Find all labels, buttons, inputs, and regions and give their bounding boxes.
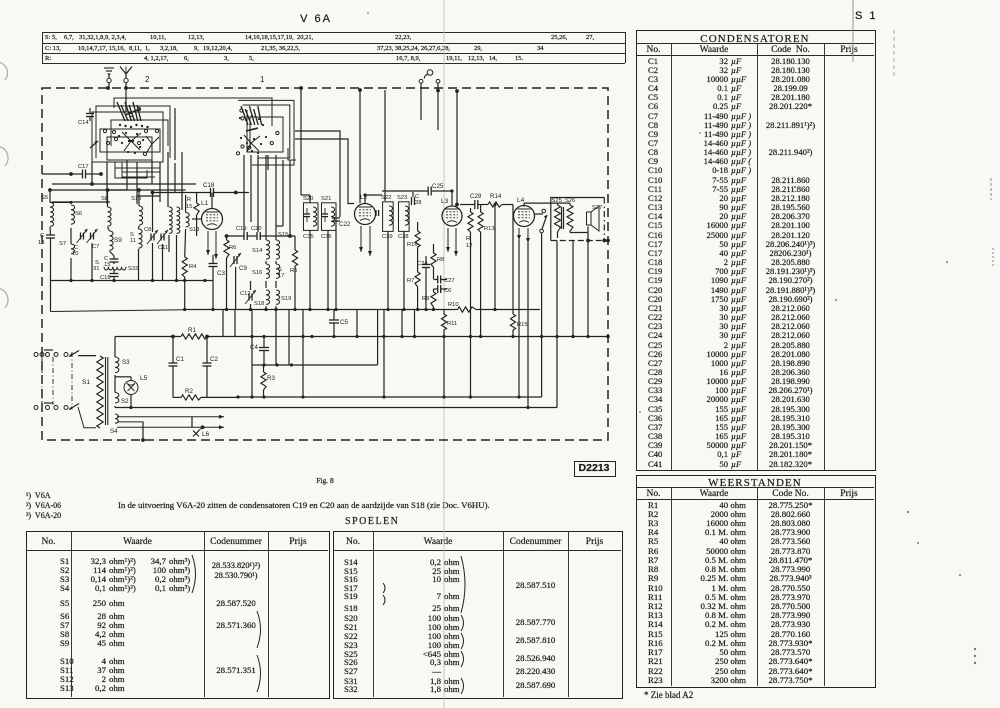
svg-text:S18: S18 xyxy=(254,301,264,307)
node j39 xyxy=(517,395,520,398)
node busA 6 xyxy=(183,279,186,282)
wire T to S20 xyxy=(295,131,340,217)
node j9 xyxy=(334,308,337,311)
coil S12b xyxy=(177,207,180,233)
node j34 xyxy=(262,395,265,398)
mains dash-dot c xyxy=(71,352,73,405)
heater lead arrow a xyxy=(117,416,224,418)
svg-text:C5: C5 xyxy=(340,319,348,326)
coil S17 xyxy=(276,264,280,278)
wire coil top link xyxy=(50,201,71,203)
svg-text:S27: S27 xyxy=(592,205,602,211)
node j4 xyxy=(264,308,267,311)
wire top border drop x360 xyxy=(359,90,361,203)
mains dash-dot a xyxy=(41,357,43,405)
node busA 1 xyxy=(69,279,72,282)
resistor R2 xyxy=(181,395,201,400)
svg-text:C: C xyxy=(40,233,44,239)
node bus-border xyxy=(606,335,610,339)
transformer secondary S3 xyxy=(115,357,119,373)
specks xyxy=(794,186,796,188)
wire C8 column xyxy=(152,193,154,232)
svg-text:12: 12 xyxy=(466,243,472,249)
mains link bar lower xyxy=(44,402,53,404)
svg-text:R6: R6 xyxy=(229,245,236,251)
node j40 xyxy=(236,395,239,398)
node j29 xyxy=(540,335,543,338)
svg-text:C22: C22 xyxy=(339,221,351,228)
coil S6 xyxy=(71,205,75,224)
svg-text:11: 11 xyxy=(130,238,136,244)
svg-text:L5: L5 xyxy=(140,375,148,382)
chassis border (dashed) xyxy=(42,88,608,440)
svg-text:R11: R11 xyxy=(447,321,457,327)
svg-text:R9: R9 xyxy=(422,296,429,302)
node speaker bottom xyxy=(586,239,590,243)
wire maze b xyxy=(137,195,160,197)
resistor R5 xyxy=(292,250,297,266)
coil S14 xyxy=(266,240,270,259)
node j41 xyxy=(129,406,132,409)
wire L4 grid xyxy=(512,205,514,213)
wire top border drop x457 xyxy=(456,91,458,205)
node j21 xyxy=(355,335,358,338)
brace S6-S9 xyxy=(257,611,261,648)
crease segment right xyxy=(893,30,895,76)
wire drop x258 xyxy=(257,155,259,232)
brace S25-S26 xyxy=(461,651,464,667)
wire drop x223 xyxy=(222,310,224,337)
trimmer C36 inside xyxy=(322,213,328,215)
svg-text:R: R xyxy=(187,197,191,203)
node top border D xyxy=(358,88,362,92)
wire bus y202 xyxy=(52,201,110,203)
heater link vert xyxy=(191,417,193,428)
wire top border drop x385 xyxy=(384,90,386,201)
node j27 xyxy=(479,335,482,338)
node j44 xyxy=(450,189,453,192)
svg-text:S6: S6 xyxy=(75,211,82,217)
svg-text:1: 1 xyxy=(260,75,265,84)
output box frame xyxy=(551,198,605,241)
valve L2 cathode arrows xyxy=(360,226,362,252)
coil S22 xyxy=(389,206,393,225)
capacitor C2 xyxy=(203,362,212,364)
valve L2 xyxy=(355,204,376,225)
node j16 xyxy=(250,335,253,338)
svg-text:C27: C27 xyxy=(444,278,455,284)
svg-text:R2: R2 xyxy=(185,388,193,395)
node coil bus c xyxy=(137,188,141,192)
node top border C xyxy=(299,86,303,90)
wire plug to primary bottom xyxy=(78,407,96,428)
wire top border drop x301 xyxy=(300,88,302,195)
svg-text:L1: L1 xyxy=(201,200,209,207)
capacitor C28 xyxy=(411,197,413,205)
node mid bus b xyxy=(275,363,278,366)
node R1 left xyxy=(171,335,175,339)
wire drop x290 xyxy=(289,160,291,236)
node x457 xyxy=(455,203,459,207)
svg-text:S9: S9 xyxy=(114,237,122,244)
svg-text:S21: S21 xyxy=(321,196,331,202)
bandswitch S stub r xyxy=(174,108,176,160)
svg-text:R7: R7 xyxy=(407,278,414,284)
wire jack drop b xyxy=(437,91,439,130)
brace S17-S19 marks xyxy=(383,583,385,593)
trimmer C9 xyxy=(233,256,235,264)
wire T stub a xyxy=(267,155,269,170)
capacitor C1 xyxy=(169,362,178,364)
wire drop x276b xyxy=(275,155,277,226)
wire S14 top link xyxy=(266,225,276,227)
node j20 xyxy=(332,335,335,338)
trimmer C10 xyxy=(80,233,82,240)
mains dash-dot b xyxy=(52,357,54,405)
capacitor C29 xyxy=(474,200,476,209)
coil S20 xyxy=(313,207,317,226)
node top border E xyxy=(455,89,459,93)
node j36 xyxy=(382,395,385,398)
svg-text:C36: C36 xyxy=(321,234,332,240)
svg-text:R: R xyxy=(466,236,470,242)
resistor R6 xyxy=(224,240,229,258)
node busA 5 xyxy=(175,279,178,282)
capacitor C5 xyxy=(329,319,339,321)
lamp symbol L6 xyxy=(193,431,199,437)
svg-text:C6: C6 xyxy=(444,288,451,294)
resistor R10 xyxy=(458,307,476,312)
brace S14-S18 xyxy=(461,556,465,613)
node j25 xyxy=(442,335,445,338)
capacitor C22 xyxy=(332,217,340,219)
wire punch hole top xyxy=(0,62,8,80)
coil S10 xyxy=(139,206,143,225)
resistor R1 xyxy=(181,334,208,339)
wire left border feed xyxy=(42,173,71,175)
coil S23 xyxy=(405,206,409,225)
svg-text:L4: L4 xyxy=(517,197,525,204)
wire T stub b xyxy=(288,148,296,160)
svg-text:C17: C17 xyxy=(78,164,89,170)
trimmer C14 xyxy=(86,113,94,115)
svg-text:S22: S22 xyxy=(381,195,391,201)
capacitor C19 xyxy=(243,232,245,240)
wire drop x235 xyxy=(234,310,236,337)
trimmer C12 xyxy=(248,294,250,301)
wire drop d xyxy=(136,162,138,204)
svg-text:15: 15 xyxy=(186,204,192,210)
bandswitch S maze a xyxy=(115,162,160,172)
valve L1 cathode arrows xyxy=(207,231,209,255)
node mid bus a xyxy=(262,363,265,366)
wire punch hole mid xyxy=(0,146,8,166)
svg-text:S32: S32 xyxy=(128,266,138,272)
resistor R7 xyxy=(415,272,420,287)
bandswitch T frame inner2 xyxy=(247,110,283,152)
coil S26 (output secondary) xyxy=(567,205,573,231)
coil S21 xyxy=(331,207,335,226)
node j18 xyxy=(301,335,304,338)
voltage selector switch lower xyxy=(69,404,79,410)
wire maze a xyxy=(107,189,127,191)
wire S4 down xyxy=(117,422,143,440)
node j43 xyxy=(493,203,496,206)
capacitor C25 xyxy=(427,187,429,196)
wire S23 bottom xyxy=(403,231,405,309)
node j23 xyxy=(400,335,403,338)
node j6 xyxy=(293,308,296,311)
svg-text:10: 10 xyxy=(72,251,78,257)
wire HT bus y309 xyxy=(51,310,185,312)
wire bus y337 xyxy=(208,336,608,338)
bandswitch T wafer contacts xyxy=(241,106,248,125)
trimmer C8 xyxy=(150,234,152,241)
pick-up jack xyxy=(427,70,433,76)
bandswitch T extra frame xyxy=(250,117,283,148)
svg-text:S23: S23 xyxy=(397,195,407,201)
wire L1 plate xyxy=(211,193,213,209)
node a xyxy=(90,182,94,186)
wire drop x276 xyxy=(275,310,277,366)
transformer secondary S2 xyxy=(115,393,119,403)
svg-text:L6: L6 xyxy=(202,431,210,438)
svg-text:R13: R13 xyxy=(484,226,495,232)
wire drop x252 xyxy=(251,310,253,398)
node j35 xyxy=(301,395,304,398)
coil S7 xyxy=(71,244,75,254)
svg-text:S13: S13 xyxy=(189,227,199,233)
svg-text:13: 13 xyxy=(38,240,44,246)
bandswitch S rotor bar xyxy=(125,109,140,115)
wire drop x283 xyxy=(282,160,284,226)
node bottom border G xyxy=(141,438,145,442)
node x290 xyxy=(288,234,292,238)
transformer primary S1 xyxy=(97,356,103,428)
node j5 xyxy=(274,308,277,311)
node j22 xyxy=(382,335,385,338)
trimmer C11 xyxy=(160,234,162,241)
resistor R3 xyxy=(261,372,266,390)
coil S19 xyxy=(276,290,280,304)
svg-text:S3: S3 xyxy=(122,359,130,366)
wire drop c xyxy=(126,160,128,190)
svg-text:S2: S2 xyxy=(121,398,129,405)
mains plug pins upper xyxy=(34,353,38,357)
svg-text:C12: C12 xyxy=(240,291,251,297)
svg-text:S8: S8 xyxy=(101,196,108,202)
node j31 xyxy=(571,335,574,338)
valve L4 xyxy=(514,206,535,227)
svg-text:S20: S20 xyxy=(303,196,313,202)
node j38 xyxy=(469,395,472,398)
valve L4 cathode arrows xyxy=(518,228,520,240)
wire drop f xyxy=(159,162,161,202)
svg-text:31: 31 xyxy=(93,266,99,272)
wire drop a xyxy=(91,162,93,184)
wire page crease right xyxy=(852,0,854,62)
node busA 3 xyxy=(112,279,115,282)
wire grid bus2 xyxy=(266,235,295,237)
wire output top xyxy=(524,202,570,204)
node coil bus b xyxy=(106,188,110,192)
bandswitch T contact circles xyxy=(240,109,243,112)
wire drop x402 xyxy=(401,310,403,337)
resistor R16 xyxy=(415,231,420,247)
capacitor C27 xyxy=(437,276,439,284)
wire T to S21 xyxy=(295,139,354,204)
bandswitch S pointer xyxy=(90,141,98,148)
node busA 7 xyxy=(203,279,206,282)
wire L2 plate xyxy=(364,195,366,204)
capacitor C3 xyxy=(209,263,218,265)
wire bus y184 xyxy=(52,183,196,185)
svg-text:C35: C35 xyxy=(303,234,314,240)
node coil bus a xyxy=(48,188,52,192)
bandswitch S wafer2 dots xyxy=(118,135,120,137)
svg-text:R4: R4 xyxy=(189,264,197,270)
svg-text:C11: C11 xyxy=(158,245,168,251)
wire ground bus A xyxy=(51,280,214,282)
tone switch xyxy=(542,209,546,213)
svg-text:C14: C14 xyxy=(78,120,89,126)
bandswitch S maze b xyxy=(122,172,155,177)
node busA 2 xyxy=(90,279,93,282)
bandswitch S frame inner2 xyxy=(107,137,152,160)
svg-text:S7: S7 xyxy=(59,241,66,247)
coil S12a xyxy=(169,207,172,233)
node j30 xyxy=(555,335,558,338)
node right border F xyxy=(606,239,610,243)
node C18 right xyxy=(234,191,238,195)
resistor R15a xyxy=(194,203,199,215)
svg-text:S16: S16 xyxy=(252,270,262,276)
wire L4 cathode drop a xyxy=(518,240,520,397)
resistor R8 xyxy=(431,253,436,267)
valve L1 xyxy=(202,209,223,230)
bandswitch S extra inner xyxy=(111,120,168,146)
resistor R14 xyxy=(488,202,502,207)
node j7 xyxy=(308,308,311,311)
coil S16 xyxy=(266,264,270,278)
transformer core xyxy=(105,357,107,425)
brace S1-S4 xyxy=(192,555,196,593)
wire S22 bottom xyxy=(387,231,389,309)
node C17 left xyxy=(69,172,73,176)
wire output drop x573 xyxy=(572,241,574,337)
wire drop x495 xyxy=(494,205,496,310)
wire S3 bottom xyxy=(114,375,116,377)
IF can S21 frame xyxy=(322,203,337,231)
node j37 xyxy=(442,395,445,398)
svg-text:S5: S5 xyxy=(41,195,48,201)
wire drop h xyxy=(174,163,176,192)
capacitor C13 xyxy=(46,234,55,236)
node j26 xyxy=(469,335,472,338)
node j14 xyxy=(432,308,435,311)
wire drop x251b xyxy=(250,155,252,222)
node j0 xyxy=(183,308,186,311)
svg-text:S14: S14 xyxy=(252,248,263,254)
svg-text:S10: S10 xyxy=(131,196,141,202)
node j12 xyxy=(416,308,419,311)
svg-text:C29: C29 xyxy=(470,193,482,200)
resistor R11 xyxy=(441,314,446,330)
svg-text:17: 17 xyxy=(278,273,284,279)
brace S22-S23 xyxy=(461,633,464,649)
coil S8 xyxy=(108,207,112,226)
wire maze d xyxy=(122,162,130,172)
wire drop x357 xyxy=(356,310,358,337)
speaker S27 xyxy=(587,212,592,225)
bandswitch T rotor bar xyxy=(246,128,258,131)
wire speaker drop xyxy=(556,241,558,408)
node mid bus c xyxy=(290,363,293,366)
IF can S20 frame xyxy=(304,203,319,231)
node j3 xyxy=(249,308,252,311)
trimmer C35 inside xyxy=(304,213,310,215)
bandswitch S wafer contacts xyxy=(117,102,125,121)
node j17 xyxy=(262,335,265,338)
IF can S23 frame xyxy=(399,202,410,232)
bandswitch T frame outer xyxy=(238,100,294,165)
wire S20 top xyxy=(309,195,311,203)
svg-text:R14: R14 xyxy=(490,193,502,200)
wire drop g xyxy=(167,152,169,207)
valve L3 xyxy=(442,206,462,226)
capacitor C18 xyxy=(210,188,212,197)
resistor R12 xyxy=(468,212,473,232)
node busA 4 xyxy=(151,279,154,282)
node j11 xyxy=(402,308,405,311)
pilot lamp L5 xyxy=(124,381,138,395)
mains link bar upper xyxy=(44,349,53,351)
svg-text:C24: C24 xyxy=(417,261,428,267)
resistor R9 xyxy=(431,292,436,307)
svg-text:C4: C4 xyxy=(250,344,258,351)
wire page crease left xyxy=(443,0,445,708)
wire drop e xyxy=(151,160,153,184)
coil S25 (output primary) xyxy=(555,205,561,232)
bandswitch S extra frame xyxy=(96,106,170,158)
wire drop i xyxy=(181,152,183,210)
wire mid bus y365 xyxy=(253,364,378,366)
node j24 xyxy=(413,335,416,338)
wire plug to primary top xyxy=(78,355,96,357)
voltage selector switch upper xyxy=(69,351,79,357)
svg-text:C39: C39 xyxy=(382,234,393,240)
wire drop b xyxy=(106,162,108,204)
coil S15 xyxy=(276,240,280,259)
wire antenna lead xyxy=(125,83,127,112)
node j10 xyxy=(386,308,389,311)
wire antenna coil top bus xyxy=(50,189,186,191)
brace S20-S21 xyxy=(461,615,464,631)
antenna symbol xyxy=(120,67,126,75)
mains plug pins lower xyxy=(34,406,38,410)
wire L4 plate xyxy=(523,203,525,206)
resistor R4 xyxy=(182,257,187,277)
coil S18 xyxy=(266,290,270,304)
node j13 xyxy=(424,308,427,311)
svg-text:R8: R8 xyxy=(437,257,444,263)
node top border B xyxy=(124,86,128,90)
capacitor C15 xyxy=(110,258,119,260)
node j8 xyxy=(326,308,329,311)
node j28 xyxy=(511,335,514,338)
wire speaker link xyxy=(570,232,588,234)
wire jack drop a xyxy=(420,91,422,120)
